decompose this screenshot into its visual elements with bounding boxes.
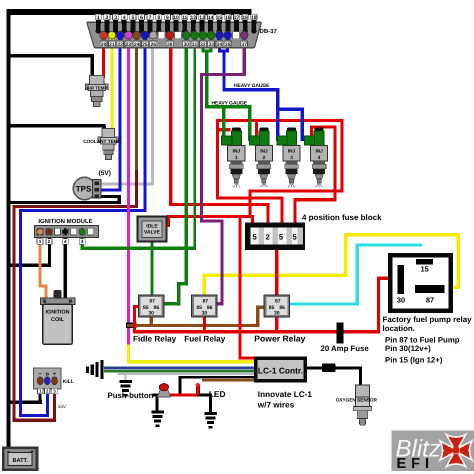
svg-text:15: 15 (420, 265, 428, 274)
svg-text:10: 10 (173, 15, 179, 21)
svg-text:AIR TEMP: AIR TEMP (87, 86, 108, 91)
svg-text:86: 86 (279, 305, 285, 311)
svg-text:COIL: COIL (51, 317, 65, 323)
svg-text:13: 13 (199, 15, 205, 21)
svg-text:2: 2 (48, 239, 51, 244)
svg-text:23: 23 (126, 42, 132, 48)
svg-text:87: 87 (275, 298, 281, 304)
svg-text:30: 30 (274, 310, 280, 316)
svg-text:32: 32 (200, 42, 206, 48)
svg-text:LED: LED (209, 389, 226, 399)
svg-text:22: 22 (117, 42, 123, 48)
svg-text:28: 28 (167, 42, 173, 48)
svg-text:26: 26 (150, 42, 156, 48)
svg-text:1: 1 (235, 155, 238, 160)
svg-text:86: 86 (154, 305, 160, 311)
svg-text:2: 2 (106, 15, 109, 21)
svg-text:6: 6 (140, 15, 143, 21)
svg-text:8: 8 (157, 15, 160, 21)
svg-text:BATT.: BATT. (12, 458, 28, 464)
svg-text:30: 30 (148, 310, 154, 316)
svg-text:COOLANT TEMP: COOLANT TEMP (83, 139, 121, 144)
svg-text:2: 2 (265, 233, 269, 242)
svg-text:15V: 15V (58, 404, 67, 409)
svg-text:Push-button: Push-button (108, 391, 154, 400)
svg-text:15: 15 (216, 15, 222, 21)
svg-text:KILL: KILL (63, 379, 74, 385)
svg-text:Pin 30(12v+): Pin 30(12v+) (385, 344, 431, 353)
svg-text:Power Relay: Power Relay (254, 333, 305, 343)
svg-text:16: 16 (225, 15, 231, 21)
svg-text:2: 2 (263, 155, 266, 160)
svg-text:31: 31 (192, 42, 198, 48)
svg-text:1: 1 (39, 239, 42, 244)
svg-text:12: 12 (191, 15, 197, 21)
svg-text:87: 87 (203, 298, 209, 304)
svg-text:OXYGEN SENSOR: OXYGEN SENSOR (336, 398, 378, 403)
svg-text:20: 20 (101, 42, 107, 48)
svg-text:11: 11 (182, 15, 188, 21)
svg-text:18: 18 (242, 15, 248, 21)
svg-text:21: 21 (109, 42, 115, 48)
svg-text:34: 34 (217, 42, 223, 48)
svg-text:24: 24 (134, 42, 140, 48)
svg-text:INJ: INJ (260, 148, 268, 153)
svg-text:30: 30 (184, 42, 190, 48)
svg-text:−: − (7, 449, 11, 455)
svg-text:Fuel Relay: Fuel Relay (184, 334, 225, 343)
svg-text:87: 87 (426, 295, 434, 304)
svg-text:EFI: EFI (397, 456, 435, 472)
svg-text:5: 5 (131, 15, 134, 21)
svg-text:14: 14 (208, 15, 214, 21)
svg-text:INJ: INJ (288, 148, 296, 153)
svg-text:INJ: INJ (233, 148, 241, 153)
svg-text:37: 37 (241, 42, 247, 48)
svg-text:location.: location. (383, 324, 415, 333)
svg-text:30: 30 (397, 295, 405, 304)
svg-text:Pin 87 to Fuel Pump: Pin 87 to Fuel Pump (385, 335, 460, 344)
svg-text:86: 86 (207, 305, 213, 311)
svg-text:9: 9 (166, 15, 169, 21)
svg-text:HEAVY GAUGE: HEAVY GAUGE (212, 101, 248, 107)
svg-text:3: 3 (114, 15, 117, 21)
svg-text:+: + (30, 449, 34, 455)
svg-text:17: 17 (234, 15, 240, 21)
svg-text:4: 4 (123, 15, 126, 21)
svg-text:35: 35 (225, 42, 231, 48)
svg-text:4: 4 (318, 155, 321, 160)
svg-text:DB-37: DB-37 (260, 28, 278, 35)
svg-text:7: 7 (149, 15, 152, 21)
svg-text:25: 25 (142, 42, 148, 48)
svg-text:30: 30 (202, 310, 208, 316)
svg-text:Pin 15 (Ign 12+): Pin 15 (Ign 12+) (385, 355, 443, 364)
svg-text:VALVE: VALVE (144, 230, 161, 236)
svg-text:HEAVY GAUGE: HEAVY GAUGE (234, 83, 270, 89)
svg-text:LC-1 Contr.: LC-1 Contr. (258, 365, 303, 375)
svg-text:19: 19 (251, 15, 257, 21)
svg-text:Fidle Relay: Fidle Relay (133, 334, 177, 343)
svg-text:33: 33 (208, 42, 214, 48)
svg-text:TPS: TPS (76, 185, 92, 194)
svg-text:4: 4 (64, 239, 67, 244)
svg-text:IGNITION: IGNITION (46, 310, 70, 316)
svg-text:w/7 wires: w/7 wires (257, 401, 295, 410)
svg-text:4 position fuse block: 4 position fuse block (302, 213, 382, 222)
svg-text:4: 4 (81, 239, 84, 244)
svg-text:(5V): (5V) (99, 170, 111, 177)
svg-text:3: 3 (290, 155, 293, 160)
svg-text:Factory fuel pump relay: Factory fuel pump relay (383, 315, 473, 324)
svg-text:1: 1 (97, 15, 100, 21)
svg-text:IGNITION MODULE: IGNITION MODULE (38, 218, 92, 225)
svg-text:87: 87 (149, 298, 155, 304)
svg-text:20 Amp Fuse: 20 Amp Fuse (321, 344, 370, 353)
svg-text:Innovate LC-1: Innovate LC-1 (258, 390, 313, 399)
svg-text:INJ: INJ (315, 148, 323, 153)
